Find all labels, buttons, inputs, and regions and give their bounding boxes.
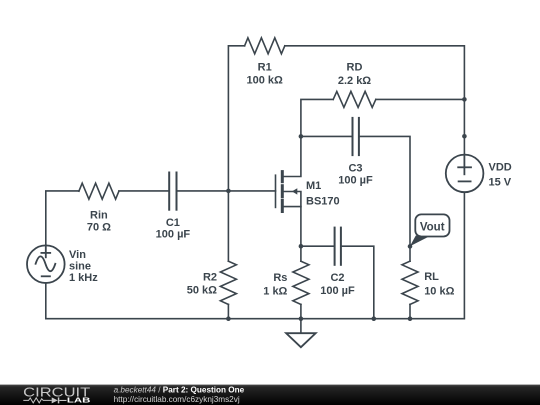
svg-text:50 kΩ: 50 kΩ xyxy=(187,285,217,297)
svg-text:10 kΩ: 10 kΩ xyxy=(424,285,454,297)
svg-text:Vout: Vout xyxy=(420,222,445,234)
wire R2 bottom lead xyxy=(227,304,229,318)
resistor R1 xyxy=(245,38,285,54)
wire Rs top lead xyxy=(300,246,302,261)
footer bar xyxy=(0,385,540,405)
svg-text:100 kΩ: 100 kΩ xyxy=(247,75,284,87)
svg-text:C2: C2 xyxy=(330,272,344,284)
label RL xyxy=(424,271,454,297)
svg-text:Rs: Rs xyxy=(273,272,287,284)
svg-text:VDD: VDD xyxy=(489,162,512,174)
capacitor C3 xyxy=(353,118,359,155)
svg-text:70 Ω: 70 Ω xyxy=(87,222,111,234)
svg-text:100 µF: 100 µF xyxy=(156,228,191,240)
wire RD left lead xyxy=(301,99,333,136)
transistor M1 drain lead xyxy=(284,136,301,176)
node Vout callout xyxy=(410,214,450,246)
svg-text:R1: R1 xyxy=(258,62,272,74)
node Vout anchor xyxy=(408,244,413,249)
svg-text:1 kΩ: 1 kΩ xyxy=(263,286,287,298)
node junction bottom C2 xyxy=(372,316,377,321)
label VDD xyxy=(489,162,512,189)
label C1 xyxy=(156,217,191,241)
wire RD right lead xyxy=(376,98,465,100)
wire Vin bottom lead xyxy=(45,283,47,319)
wire C2 right lead xyxy=(341,246,374,319)
voltage source VDD xyxy=(446,155,484,193)
svg-text:LAB: LAB xyxy=(67,396,91,405)
resistor Rin xyxy=(79,183,119,199)
wire C3 left lead xyxy=(301,135,353,137)
svg-text:100 µF: 100 µF xyxy=(338,175,373,187)
wire top row left segment xyxy=(228,46,244,191)
svg-text:M1: M1 xyxy=(306,180,321,192)
svg-text:15 V: 15 V xyxy=(489,177,512,189)
wire R2 top lead xyxy=(227,191,229,261)
svg-text:100 µF: 100 µF xyxy=(320,285,355,297)
svg-text:Rin: Rin xyxy=(90,210,108,222)
label C2 xyxy=(320,272,355,297)
node junction bottom ground xyxy=(299,316,304,321)
node junction bottom RL xyxy=(408,316,413,321)
svg-text:sine: sine xyxy=(69,260,91,272)
svg-text:BS170: BS170 xyxy=(306,196,340,208)
resistor R2 xyxy=(220,261,236,304)
label Rin xyxy=(87,210,111,234)
node junction RD-VDD xyxy=(462,97,467,102)
capacitor C1 xyxy=(169,173,176,210)
label M1 xyxy=(306,180,340,208)
transistor M1 channel bars xyxy=(281,172,284,212)
svg-text:1 kHz: 1 kHz xyxy=(69,272,98,284)
footer logo diode glyph xyxy=(52,397,67,403)
resistor RL xyxy=(402,261,418,304)
transistor M1 source lead xyxy=(284,207,301,247)
wire Rin to C1 xyxy=(119,190,169,192)
resistor Rs xyxy=(293,261,309,304)
node junction drain-RD-C3 xyxy=(299,134,304,139)
wire Rs bottom lead xyxy=(300,304,302,318)
voltage source Vin xyxy=(27,245,65,283)
wire C1 to gate xyxy=(177,190,276,192)
capacitor C2 xyxy=(335,228,341,265)
svg-text:2.2 kΩ: 2.2 kΩ xyxy=(338,75,371,87)
label R1 xyxy=(247,62,284,87)
node junction source-Rs-C2 xyxy=(299,244,304,249)
transistor M1 body lead xyxy=(284,192,301,207)
node junction R1-C1-gate xyxy=(226,189,231,194)
transistor M1 gate bar xyxy=(275,175,277,207)
svg-text:a.beckett44 / Part 2: Question: a.beckett44 / Part 2: Question One xyxy=(114,385,245,394)
label Rs xyxy=(263,272,287,298)
wire C2 left lead xyxy=(301,245,335,247)
wire top row right segment xyxy=(285,46,465,155)
label C3 xyxy=(338,162,373,186)
wire RL top lead xyxy=(409,246,411,261)
label Vin xyxy=(69,249,98,284)
svg-text:http://circuitlab.com/c6zyknj3: http://circuitlab.com/c6zyknj3ms2vj xyxy=(114,395,240,404)
node junction VDD top xyxy=(462,134,467,139)
node junction bottom R2 xyxy=(226,316,231,321)
label R2 xyxy=(187,272,217,297)
footer logo resistor glyph xyxy=(23,398,51,403)
svg-text:RL: RL xyxy=(424,271,439,283)
svg-text:R2: R2 xyxy=(203,272,217,284)
wire VDD bottom lead xyxy=(46,192,465,319)
ground xyxy=(286,319,316,348)
wire gate row xyxy=(46,191,79,246)
wire C3 right lead xyxy=(359,136,410,246)
resistor RD xyxy=(333,91,376,107)
transistor M1 body arrow xyxy=(292,188,297,194)
svg-text:RD: RD xyxy=(347,62,363,74)
label RD xyxy=(338,62,371,87)
svg-text:C1: C1 xyxy=(166,217,180,229)
wire RL bottom lead xyxy=(409,304,411,318)
svg-text:C3: C3 xyxy=(348,162,362,174)
